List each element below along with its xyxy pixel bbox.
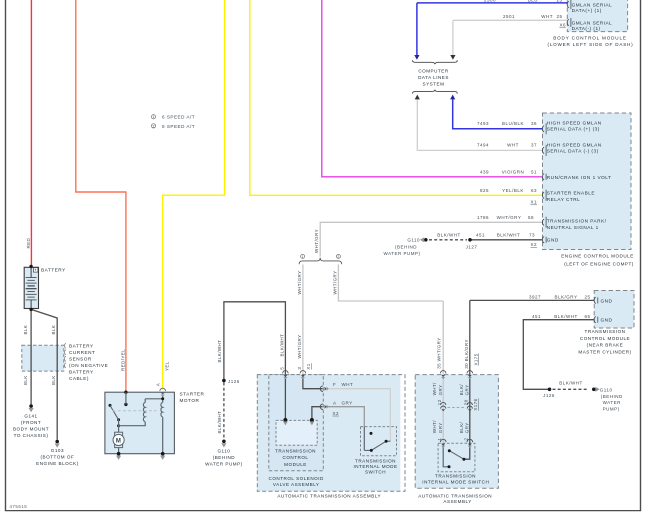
svg-text:GRY: GRY	[464, 385, 469, 396]
svg-text:BLU: BLU	[528, 0, 538, 2]
svg-text:2500: 2500	[484, 0, 496, 2]
svg-text:451: 451	[532, 314, 541, 319]
svg-text:GRY: GRY	[438, 385, 443, 396]
svg-text:SERIAL DATA (+) (3): SERIAL DATA (+) (3)	[547, 127, 600, 132]
svg-text:(BEHIND: (BEHIND	[601, 394, 623, 399]
svg-text:CONTROL: CONTROL	[283, 455, 309, 460]
svg-text:SYSTEM: SYSTEM	[423, 81, 445, 86]
svg-text:1: 1	[302, 255, 304, 259]
svg-text:12: 12	[437, 399, 442, 405]
svg-text:BLK: BLK	[23, 325, 28, 335]
svg-text:RED: RED	[26, 237, 31, 248]
svg-text:X2: X2	[530, 242, 537, 247]
svg-text:GMLAN SERIAL: GMLAN SERIAL	[572, 21, 613, 26]
svg-text:G110: G110	[407, 237, 420, 242]
svg-text:MOTOR: MOTOR	[180, 398, 200, 403]
svg-text:(LEFT OF ENGINE COMPT): (LEFT OF ENGINE COMPT)	[564, 262, 634, 267]
svg-text:RED/YEL: RED/YEL	[120, 349, 125, 371]
svg-text:J126: J126	[228, 379, 240, 384]
svg-text:6 SPEED A/T: 6 SPEED A/T	[162, 115, 195, 120]
svg-text:RUN/CRANK IGN 1 VOLT: RUN/CRANK IGN 1 VOLT	[547, 175, 612, 180]
svg-text:BLK/WHT: BLK/WHT	[559, 381, 583, 386]
svg-text:1: 1	[153, 115, 155, 119]
svg-text:SENSOR: SENSOR	[69, 356, 92, 361]
svg-text:YEL/BLK: YEL/BLK	[502, 188, 524, 193]
svg-text:BLK/WHT: BLK/WHT	[554, 314, 578, 319]
svg-text:(BOTTOM OF: (BOTTOM OF	[41, 455, 75, 460]
svg-text:G141: G141	[24, 414, 37, 419]
svg-text:TRANSMISSION: TRANSMISSION	[275, 448, 316, 453]
svg-text:G110: G110	[217, 449, 230, 454]
svg-text:51: 51	[531, 169, 537, 174]
svg-text:25: 25	[584, 294, 590, 299]
svg-text:(NEAR BRAKE: (NEAR BRAKE	[587, 343, 624, 348]
svg-text:WATER PUMP): WATER PUMP)	[205, 462, 243, 467]
svg-text:GND: GND	[601, 298, 613, 303]
svg-text:7493: 7493	[477, 121, 489, 126]
svg-text:X6: X6	[559, 23, 566, 28]
svg-text:BODY CONTROL MODULE: BODY CONTROL MODULE	[553, 36, 627, 41]
svg-text:CURRENT: CURRENT	[69, 350, 95, 355]
svg-text:BODY MOUNT: BODY MOUNT	[13, 426, 49, 431]
svg-text:HIGH SPEED GMLAN: HIGH SPEED GMLAN	[547, 121, 602, 126]
svg-text:WHT/: WHT/	[432, 420, 437, 433]
svg-text:AUTOMATIC TRANSMISSION ASSEMBL: AUTOMATIC TRANSMISSION ASSEMBLY	[277, 494, 381, 499]
svg-text:BLK: BLK	[23, 375, 28, 385]
svg-text:73: 73	[529, 233, 535, 238]
svg-text:37: 37	[531, 143, 537, 148]
svg-text:TRANSMISSION: TRANSMISSION	[435, 473, 476, 478]
svg-text:M: M	[116, 438, 122, 444]
svg-text:WHT: WHT	[507, 143, 519, 148]
svg-text:WHT/GRY: WHT/GRY	[332, 271, 337, 295]
svg-text:BLK/: BLK/	[459, 421, 464, 433]
svg-text:GRY: GRY	[438, 422, 443, 433]
svg-text:20: 20	[464, 399, 469, 405]
svg-text:MASTER CYLINDER): MASTER CYLINDER)	[578, 350, 631, 355]
svg-text:BLK: BLK	[51, 325, 56, 335]
svg-text:GND: GND	[547, 238, 559, 243]
svg-text:WATER: WATER	[603, 400, 621, 405]
svg-text:BATTERY: BATTERY	[69, 343, 94, 348]
svg-text:CABLE): CABLE)	[69, 376, 89, 381]
svg-text:25: 25	[556, 14, 562, 19]
svg-text:X175: X175	[473, 353, 478, 365]
svg-text:BLK/WHT: BLK/WHT	[497, 233, 521, 238]
svg-text:TRANSMISSION: TRANSMISSION	[585, 329, 626, 334]
svg-text:GRY: GRY	[342, 400, 353, 405]
svg-text:J126: J126	[543, 393, 555, 398]
svg-text:WHT/GRY: WHT/GRY	[497, 215, 522, 220]
svg-text:2: 2	[337, 255, 339, 259]
svg-text:A: A	[156, 383, 161, 386]
svg-text:RELAY CTRL: RELAY CTRL	[547, 197, 580, 202]
svg-text:BLK/GRY: BLK/GRY	[555, 294, 578, 299]
svg-text:(BEHIND: (BEHIND	[395, 244, 417, 249]
svg-text:30 BLK/GRY: 30 BLK/GRY	[464, 339, 469, 369]
svg-text:BATTERY: BATTERY	[69, 369, 94, 374]
svg-text:X1: X1	[306, 363, 311, 369]
svg-text:25: 25	[556, 0, 562, 2]
svg-text:(LOWER LEFT SIDE OF DASH): (LOWER LEFT SIDE OF DASH)	[547, 42, 633, 47]
svg-text:PUMP): PUMP)	[603, 406, 620, 411]
svg-text:3927: 3927	[529, 294, 541, 299]
svg-text:ENGINE CONTROL MODULE: ENGINE CONTROL MODULE	[561, 254, 634, 259]
svg-text:SERIAL DATA (-) (3): SERIAL DATA (-) (3)	[547, 148, 599, 153]
svg-text:BLU/BLK: BLU/BLK	[502, 121, 524, 126]
svg-text:BATTERY: BATTERY	[41, 267, 66, 272]
svg-text:COMPUTER: COMPUTER	[418, 69, 448, 74]
svg-text:INTERNAL MODE SWITCH: INTERNAL MODE SWITCH	[422, 480, 489, 485]
svg-text:2501: 2501	[503, 14, 515, 19]
svg-text:YEL: YEL	[165, 361, 170, 371]
svg-text:VIO/GRN: VIO/GRN	[502, 169, 525, 174]
svg-text:WHT/GRY: WHT/GRY	[297, 335, 302, 359]
svg-text:451: 451	[476, 233, 485, 238]
svg-text:A: A	[333, 400, 337, 405]
svg-text:WHT: WHT	[541, 14, 553, 19]
svg-text:G110: G110	[600, 387, 613, 392]
svg-text:X1: X1	[530, 200, 537, 205]
svg-text:ASSEMBLY: ASSEMBLY	[443, 499, 471, 504]
svg-text:BLK/WHT: BLK/WHT	[217, 340, 222, 363]
svg-text:MODULE: MODULE	[284, 462, 307, 467]
svg-text:SWITCH: SWITCH	[365, 469, 386, 474]
svg-text:X176: X176	[473, 398, 478, 410]
svg-text:WHT: WHT	[342, 382, 354, 387]
svg-text:CONTROL MODULE: CONTROL MODULE	[580, 336, 630, 341]
svg-text:G103: G103	[51, 448, 64, 453]
svg-text:STARTER: STARTER	[180, 391, 205, 396]
svg-text:GND: GND	[601, 318, 613, 323]
svg-text:WHT/: WHT/	[432, 382, 437, 395]
svg-text:BLK/WHT: BLK/WHT	[437, 233, 461, 238]
svg-text:3: 3	[297, 367, 302, 370]
svg-text:WATER PUMP): WATER PUMP)	[384, 251, 421, 256]
svg-text:WHT/GRY: WHT/GRY	[297, 271, 302, 295]
svg-text:+: +	[34, 268, 37, 273]
svg-text:(FRONT: (FRONT	[21, 420, 41, 425]
svg-text:475615: 475615	[10, 504, 28, 509]
svg-text:DATA(-) (1): DATA(-) (1)	[572, 26, 601, 31]
svg-text:X2: X2	[333, 411, 340, 416]
svg-text:NEUTRAL SIGNAL 1: NEUTRAL SIGNAL 1	[547, 225, 599, 230]
svg-text:AUTOMATIC TRANSMISSION: AUTOMATIC TRANSMISSION	[418, 493, 492, 498]
svg-text:J127: J127	[466, 245, 478, 250]
svg-text:GRY: GRY	[464, 422, 469, 433]
svg-text:TRANSMISSION PARK/: TRANSMISSION PARK/	[547, 219, 607, 224]
svg-text:5: 5	[280, 367, 285, 370]
svg-text:VALVE ASSEMBLY: VALVE ASSEMBLY	[273, 482, 320, 487]
svg-text:BLK/: BLK/	[459, 384, 464, 396]
svg-text:TO CHASSIS): TO CHASSIS)	[14, 433, 49, 438]
svg-text:BLK/WHT: BLK/WHT	[279, 334, 284, 357]
svg-text:TRANSMISSION: TRANSMISSION	[355, 459, 396, 464]
svg-text:STARTER ENABLE: STARTER ENABLE	[547, 191, 595, 196]
svg-text:DATA LINES: DATA LINES	[418, 75, 449, 80]
svg-text:WHT/GRY: WHT/GRY	[314, 229, 319, 253]
svg-text:7494: 7494	[477, 143, 489, 148]
svg-text:825: 825	[480, 188, 489, 193]
svg-text:(BEHIND: (BEHIND	[213, 455, 236, 460]
svg-text:63: 63	[531, 188, 537, 193]
svg-text:1786: 1786	[477, 215, 489, 220]
svg-text:BLK: BLK	[51, 375, 56, 385]
svg-text:DATA(+) (1): DATA(+) (1)	[572, 8, 602, 13]
svg-text:GMLAN SERIAL: GMLAN SERIAL	[572, 3, 613, 8]
svg-text:BLK/WHT: BLK/WHT	[217, 411, 222, 434]
svg-text:36: 36	[531, 121, 537, 126]
svg-text:35 WHT/GRY: 35 WHT/GRY	[437, 337, 442, 368]
svg-text:1: 1	[437, 438, 442, 441]
svg-text:2: 2	[464, 438, 469, 441]
svg-text:CONTROL SOLENOID: CONTROL SOLENOID	[269, 476, 324, 481]
svg-text:65: 65	[584, 314, 590, 319]
svg-text:(ON NEGATIVE: (ON NEGATIVE	[69, 363, 108, 368]
svg-text:439: 439	[480, 169, 489, 174]
svg-text:F: F	[333, 382, 336, 387]
svg-text:2: 2	[153, 124, 155, 128]
svg-text:HIGH SPEED GMLAN: HIGH SPEED GMLAN	[547, 142, 602, 147]
svg-text:58: 58	[528, 215, 534, 220]
svg-text:8 SPEED A/T: 8 SPEED A/T	[162, 124, 195, 129]
svg-text:INTERNAL MODE: INTERNAL MODE	[353, 464, 397, 469]
svg-text:ENGINE BLOCK): ENGINE BLOCK)	[36, 461, 79, 466]
